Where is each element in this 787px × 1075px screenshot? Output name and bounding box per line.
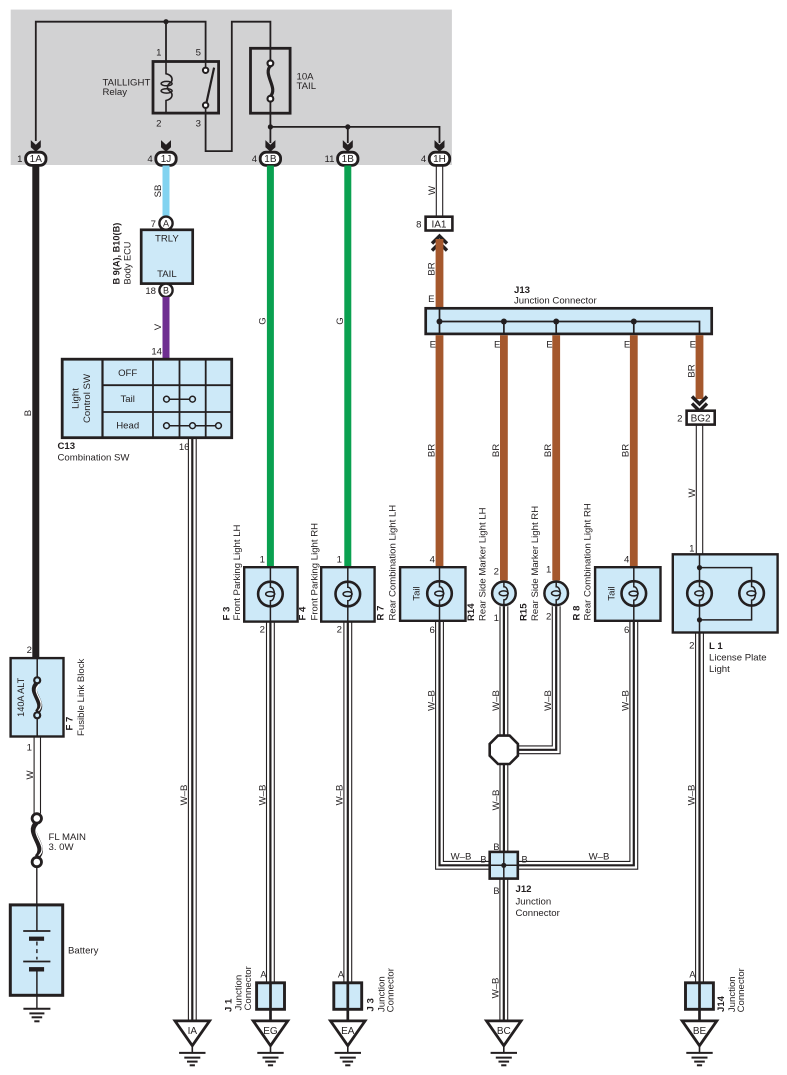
- svg-text:Rear Side Marker Light RH: Rear Side Marker Light RH: [530, 506, 541, 621]
- wire W-B C13 to IA: [188, 438, 196, 1021]
- svg-text:TRLY: TRLY: [155, 233, 179, 244]
- svg-text:Front Parking Light LH: Front Parking Light LH: [232, 524, 243, 620]
- wire to battery: [36, 867, 38, 905]
- svg-text:2: 2: [689, 641, 694, 652]
- svg-text:7: 7: [151, 219, 156, 230]
- svg-text:Junction: Junction: [516, 897, 552, 908]
- wire BR J13 to R7: [436, 335, 444, 567]
- svg-text:V: V: [153, 323, 164, 330]
- body ECU B9(A) B10(B): [112, 223, 193, 285]
- wire W-B F4 to J3: [344, 622, 352, 983]
- svg-text:1: 1: [689, 544, 694, 555]
- connector BG2 pin 2: [677, 411, 715, 425]
- wire W-B R14 to octagon: [500, 606, 508, 736]
- combination switch C13: [58, 359, 232, 463]
- ground EG: [253, 1021, 288, 1065]
- svg-text:A: A: [260, 970, 267, 980]
- ground battery: [23, 995, 50, 1021]
- lamp R15 Rear Side Marker Light RH: [519, 506, 569, 623]
- svg-text:License Plate: License Plate: [709, 652, 767, 663]
- svg-text:W: W: [687, 488, 698, 498]
- svg-text:3. 0W: 3. 0W: [49, 842, 75, 853]
- battery: [10, 905, 98, 995]
- svg-text:4: 4: [624, 555, 630, 566]
- svg-text:Rear Side Marker Light LH: Rear Side Marker Light LH: [478, 507, 489, 621]
- wire BR J13 to R15: [552, 335, 560, 580]
- octagon splice: [490, 736, 518, 764]
- svg-text:A: A: [338, 970, 345, 980]
- svg-text:18: 18: [145, 286, 156, 297]
- svg-text:5: 5: [196, 48, 201, 59]
- svg-text:3: 3: [196, 118, 201, 129]
- svg-text:1A: 1A: [30, 154, 43, 165]
- svg-text:1J: 1J: [161, 154, 172, 165]
- svg-text:E: E: [494, 340, 500, 351]
- svg-text:G: G: [258, 317, 269, 324]
- svg-text:B: B: [493, 886, 499, 896]
- svg-text:BR: BR: [543, 444, 554, 457]
- node fuse output: [268, 124, 273, 129]
- svg-text:A: A: [689, 970, 696, 980]
- wire W to FL MAIN: [34, 737, 40, 814]
- svg-text:TAIL: TAIL: [157, 269, 177, 280]
- svg-text:8: 8: [416, 220, 421, 231]
- svg-text:Tail: Tail: [412, 586, 423, 600]
- svg-text:Junction Connector: Junction Connector: [514, 295, 597, 306]
- lamp R14 Rear Side Marker Light LH: [466, 507, 516, 624]
- wire B black: [32, 166, 39, 659]
- svg-text:B: B: [23, 410, 34, 416]
- svg-text:W–B: W–B: [491, 978, 502, 999]
- svg-text:6: 6: [624, 625, 629, 636]
- svg-text:2: 2: [156, 118, 161, 129]
- svg-text:SB: SB: [153, 185, 164, 198]
- connector 1H pin 4: [421, 140, 450, 165]
- junction connector J3: [334, 967, 397, 1021]
- connector IA1 pin 8: [416, 166, 452, 231]
- svg-text:4: 4: [147, 154, 153, 165]
- fusible link FL MAIN: [32, 814, 86, 867]
- svg-text:W–B: W–B: [621, 690, 632, 711]
- wire fuse output bus: [270, 113, 439, 143]
- svg-text:W–B: W–B: [257, 785, 268, 806]
- wire BR J13 to BG2: [696, 335, 704, 399]
- connector 1A pin 1: [17, 140, 46, 165]
- lamp L1 License Plate Light: [673, 544, 778, 675]
- svg-text:Light: Light: [709, 664, 730, 675]
- svg-text:J12: J12: [516, 884, 532, 895]
- svg-text:Rear Combination Light RH: Rear Combination Light RH: [583, 503, 594, 620]
- wire W BG2 to L1: [696, 425, 702, 555]
- svg-text:Connector: Connector: [243, 965, 254, 1010]
- junction connector J1: [224, 965, 285, 1020]
- lamp F4 Front Parking Light RH: [298, 523, 375, 636]
- svg-text:Connector: Connector: [516, 908, 561, 919]
- wire relay pin3 to fuse: [206, 22, 271, 151]
- junction connector J12: [480, 852, 560, 919]
- wire W-B R8 to J12: [518, 621, 638, 869]
- pin A circle body ECU: [151, 217, 173, 230]
- svg-text:G: G: [335, 317, 346, 324]
- svg-text:6: 6: [429, 625, 434, 636]
- lamp R7 Rear Combination Light LH: [376, 505, 466, 636]
- svg-text:1: 1: [494, 613, 499, 624]
- svg-text:EG: EG: [263, 1026, 278, 1037]
- node top-bus junction: [163, 19, 168, 24]
- svg-text:W: W: [427, 185, 438, 195]
- svg-text:BE: BE: [693, 1026, 707, 1037]
- svg-text:W–B: W–B: [179, 785, 190, 806]
- svg-text:1: 1: [17, 154, 22, 165]
- pin B circle body ECU: [145, 284, 172, 297]
- svg-text:2: 2: [677, 414, 682, 425]
- wire BR IA1 to J13: [436, 239, 444, 307]
- svg-text:EA: EA: [341, 1026, 355, 1037]
- svg-text:BR: BR: [426, 444, 437, 457]
- svg-text:BR: BR: [621, 444, 632, 457]
- wire top bus: [36, 22, 206, 141]
- svg-text:W–B: W–B: [491, 790, 502, 811]
- svg-text:4: 4: [430, 555, 436, 566]
- node branch 1B: [345, 124, 350, 129]
- svg-text:4: 4: [421, 154, 427, 165]
- wire BR J13 to R8: [630, 335, 638, 567]
- svg-text:Combination SW: Combination SW: [58, 453, 131, 464]
- wire BR J13 to R14: [500, 335, 508, 580]
- svg-text:R 7: R 7: [376, 606, 387, 621]
- svg-text:Tail: Tail: [607, 586, 618, 600]
- svg-text:W–B: W–B: [543, 690, 554, 711]
- wire W-B J12 to BC: [500, 879, 508, 1021]
- ground BE: [682, 1021, 717, 1065]
- svg-text:BC: BC: [497, 1026, 511, 1037]
- ground EA: [331, 1021, 366, 1065]
- wire W-B F3 to J1: [267, 622, 275, 983]
- svg-text:R14: R14: [466, 603, 477, 621]
- svg-text:Body ECU: Body ECU: [123, 242, 133, 285]
- svg-text:W–B: W–B: [491, 690, 502, 711]
- junction connector J14: [686, 967, 748, 1021]
- svg-text:E: E: [690, 340, 696, 351]
- svg-text:B: B: [480, 855, 486, 865]
- svg-text:L 1: L 1: [709, 641, 723, 652]
- wire G to F4: [344, 166, 351, 568]
- wire W-B R7 to J12: [436, 621, 490, 869]
- svg-text:2: 2: [27, 645, 32, 656]
- svg-text:Front Parking Light RH: Front Parking Light RH: [310, 523, 321, 621]
- svg-text:BG2: BG2: [691, 414, 711, 425]
- svg-text:14: 14: [151, 347, 162, 358]
- fusible link F7: [11, 658, 87, 736]
- svg-text:Connector: Connector: [386, 967, 397, 1012]
- ground IA: [175, 1021, 210, 1065]
- svg-text:BR: BR: [686, 364, 697, 377]
- svg-text:1: 1: [27, 743, 32, 754]
- relay TAILLIGHT: [103, 48, 219, 130]
- svg-text:Battery: Battery: [68, 945, 99, 956]
- svg-text:F 7: F 7: [65, 717, 76, 731]
- svg-text:B 9(A), B10(B): B 9(A), B10(B): [112, 223, 122, 285]
- power source header block: [11, 10, 452, 165]
- svg-text:1B: 1B: [264, 154, 277, 165]
- svg-text:140A ALT: 140A ALT: [16, 677, 26, 717]
- wire W-B L1 to J14: [696, 633, 704, 983]
- wire SB: [163, 166, 170, 217]
- ground BC: [487, 1021, 522, 1065]
- svg-text:B: B: [493, 842, 499, 852]
- svg-text:E: E: [428, 294, 434, 305]
- svg-text:E: E: [624, 340, 630, 351]
- svg-text:W: W: [25, 770, 36, 780]
- svg-text:Fusible Link Block: Fusible Link Block: [76, 658, 87, 736]
- svg-text:1B: 1B: [342, 154, 355, 165]
- svg-text:2: 2: [494, 567, 499, 578]
- svg-text:1: 1: [260, 555, 265, 566]
- svg-text:IA: IA: [188, 1026, 198, 1037]
- chevron down BG2: [692, 397, 707, 412]
- svg-text:BR: BR: [491, 444, 502, 457]
- svg-text:Rear Combination Light LH: Rear Combination Light LH: [388, 505, 399, 621]
- svg-text:J14: J14: [716, 995, 727, 1012]
- svg-text:OFF: OFF: [118, 368, 137, 379]
- svg-text:1: 1: [546, 565, 551, 576]
- svg-text:C13: C13: [58, 441, 76, 452]
- svg-text:Light: Light: [71, 388, 82, 409]
- wire G to F3: [267, 166, 274, 568]
- svg-text:4: 4: [252, 154, 258, 165]
- svg-text:R15: R15: [519, 603, 530, 621]
- svg-text:R 8: R 8: [572, 605, 583, 621]
- svg-text:B: B: [163, 286, 169, 296]
- svg-text:F 3: F 3: [222, 607, 233, 621]
- svg-text:BR: BR: [426, 262, 437, 275]
- svg-text:W–B: W–B: [686, 785, 697, 806]
- svg-text:Head: Head: [116, 420, 139, 431]
- svg-text:Connector: Connector: [736, 967, 747, 1012]
- svg-text:E: E: [430, 340, 436, 351]
- lamp R8 Rear Combination Light RH: [572, 503, 661, 636]
- svg-text:E: E: [546, 340, 552, 351]
- svg-text:1: 1: [156, 48, 161, 59]
- svg-text:A: A: [163, 219, 169, 229]
- svg-text:1: 1: [337, 555, 342, 566]
- svg-text:TAIL: TAIL: [297, 81, 317, 92]
- wire W-B octagon to J12: [500, 764, 508, 852]
- fuse 10A TAIL: [251, 48, 317, 113]
- wire V purple: [163, 297, 170, 359]
- svg-text:W–B: W–B: [335, 785, 346, 806]
- connector 1B pin 11: [325, 140, 358, 165]
- svg-text:2: 2: [546, 612, 551, 623]
- svg-text:IA1: IA1: [431, 220, 446, 231]
- svg-text:Control SW: Control SW: [82, 373, 93, 423]
- svg-text:F 4: F 4: [298, 606, 309, 621]
- svg-text:W–B: W–B: [589, 852, 610, 863]
- junction connector J13: [426, 285, 712, 334]
- chevron up IA1: [432, 236, 447, 251]
- svg-text:Relay: Relay: [103, 87, 128, 98]
- svg-text:B: B: [522, 855, 528, 865]
- svg-text:2: 2: [337, 625, 342, 636]
- lamp F3 Front Parking Light LH: [222, 524, 298, 635]
- svg-text:1H: 1H: [433, 154, 446, 165]
- svg-text:2: 2: [260, 625, 265, 636]
- svg-text:J 3: J 3: [365, 998, 376, 1011]
- svg-text:W–B: W–B: [451, 852, 472, 863]
- svg-text:J13: J13: [514, 285, 530, 296]
- connector 1B pin 4: [252, 140, 281, 165]
- svg-text:Tail: Tail: [120, 394, 134, 405]
- svg-text:11: 11: [325, 154, 335, 165]
- wire W-B R15 to octagon: [518, 606, 560, 753]
- connector 1J pin 4: [147, 140, 176, 165]
- svg-text:W–B: W–B: [426, 690, 437, 711]
